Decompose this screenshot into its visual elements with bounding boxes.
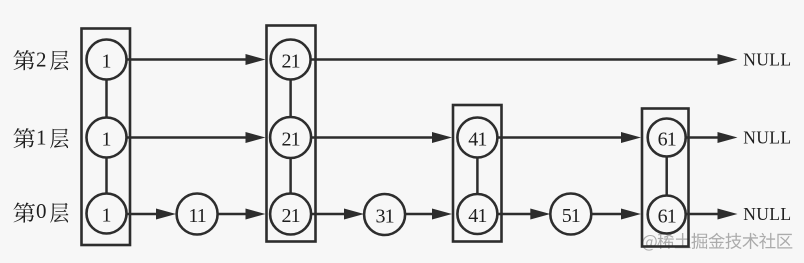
node 41 level0 — [457, 194, 497, 234]
wire L2: 21 to NULL — [311, 54, 738, 65]
svg-text:61: 61 — [658, 205, 676, 227]
svg-text:11: 11 — [188, 205, 205, 227]
wire L1: 41 to 61 — [497, 132, 641, 143]
box column 61 — [642, 109, 689, 247]
svg-text:1: 1 — [102, 50, 112, 72]
label level-1: 第 1 层 — [13, 126, 68, 150]
wire L0: 61 to NULL — [686, 209, 738, 220]
box column 41 — [453, 105, 502, 242]
svg-text:NULL: NULL — [743, 127, 791, 147]
wire link 1: L1-L0 — [105, 158, 108, 194]
node 11 level0 — [177, 194, 218, 235]
node 21 level0 — [270, 194, 311, 235]
svg-text:21: 21 — [281, 128, 299, 150]
svg-text:41: 41 — [468, 128, 486, 150]
wire link 61: L1-L0 — [665, 157, 668, 196]
svg-text:31: 31 — [375, 205, 393, 227]
wire link 21: L1-L0 — [289, 158, 292, 195]
svg-text:21: 21 — [281, 50, 299, 72]
label level-2: 第 2 层 — [13, 48, 68, 72]
svg-text:2: 2 — [36, 48, 47, 72]
wire link 1: L2-L1 — [105, 80, 108, 118]
label level-0: 第 0 层 — [13, 199, 68, 223]
svg-text:1: 1 — [102, 204, 112, 226]
svg-text:0: 0 — [36, 199, 47, 223]
svg-text:1: 1 — [36, 126, 47, 150]
wire L0: 31 to 41 — [405, 209, 452, 220]
wire L1: 1 to 21 — [127, 132, 266, 143]
box column 1 — [82, 29, 131, 246]
svg-text:41: 41 — [468, 205, 486, 227]
watermark @稀土掘金技术社区 — [642, 233, 792, 251]
box column 21 — [267, 26, 316, 242]
svg-text:1: 1 — [102, 128, 112, 150]
svg-text:NULL: NULL — [743, 49, 791, 69]
wire L2: 1 to 21 — [127, 54, 266, 65]
wire L1: 61 to NULL — [686, 132, 738, 143]
wire L1: 21 to 41 — [311, 132, 452, 143]
wire L0: 51 to 61 — [591, 209, 641, 220]
wire L0: 11 to 21 — [218, 209, 266, 220]
svg-text:51: 51 — [562, 205, 580, 227]
wire link 41: L1-L0 — [476, 158, 479, 195]
node 21 level2 — [271, 40, 311, 80]
node 61 level0 — [648, 196, 686, 234]
svg-text:61: 61 — [658, 128, 676, 150]
node 41 level1 — [457, 118, 497, 158]
node 31 level0 — [364, 194, 405, 235]
svg-text:21: 21 — [281, 205, 299, 227]
node 1 level0 — [87, 194, 127, 234]
wire L0: 41 to 51 — [497, 209, 550, 220]
node 1 level1 — [87, 118, 127, 158]
wire link 21: L2-L1 — [289, 80, 292, 118]
node 21 level1 — [270, 117, 311, 158]
node 1 level2 — [87, 40, 127, 80]
node 61 level1 — [648, 119, 686, 157]
wire L0: 1 to 11 — [127, 209, 177, 220]
node 51 level0 — [550, 194, 591, 235]
svg-text:NULL: NULL — [743, 204, 791, 224]
wire L0: 21 to 31 — [311, 209, 364, 220]
